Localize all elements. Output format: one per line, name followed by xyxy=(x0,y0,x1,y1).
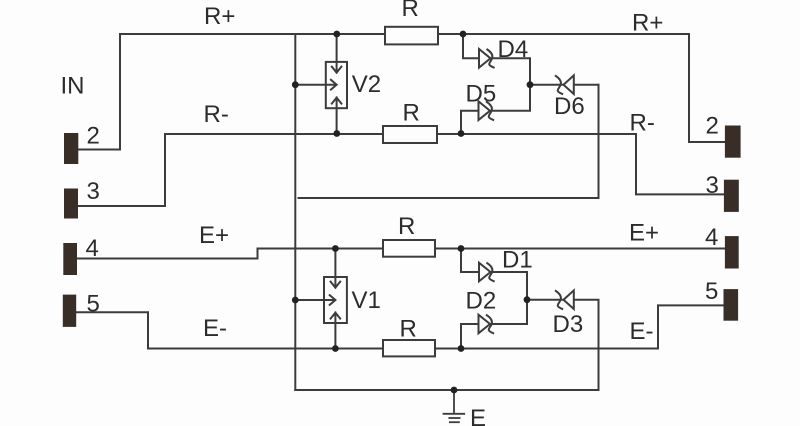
svg-text:D5: D5 xyxy=(466,81,497,108)
ground E symbol xyxy=(444,390,465,422)
terminal pad right 4 xyxy=(725,236,739,268)
wire: left pin3 lead and riser to R- xyxy=(78,134,165,206)
resistor R (E+ line) xyxy=(383,240,435,257)
resistor R (R- line) xyxy=(383,126,437,143)
wire: V1 bottom feed xyxy=(334,323,336,349)
wire: left pin4 lead to E+ xyxy=(77,249,258,259)
svg-text:D1: D1 xyxy=(502,247,533,274)
diode D1 xyxy=(479,263,494,282)
svg-text:E-: E- xyxy=(630,318,654,345)
svg-text:R-: R- xyxy=(204,101,229,128)
wire: R+ drop to right pin2 xyxy=(689,34,725,142)
junction: rail to V2 gate xyxy=(292,81,299,88)
wire: V1 top feed xyxy=(334,249,336,278)
wire: V1 gate feed from rail xyxy=(295,299,324,301)
terminal pad left 2 xyxy=(64,133,78,164)
resistor R (top, R+ line) xyxy=(385,27,438,45)
svg-text:D2: D2 xyxy=(466,288,497,315)
junction: D1/D2/D3 node xyxy=(524,296,531,303)
junction: rail to V1 gate xyxy=(292,297,299,304)
wire: net R+ horizontal xyxy=(120,33,689,35)
junction: V1 bottom on E- xyxy=(332,345,339,352)
svg-text:2: 2 xyxy=(706,113,719,140)
svg-text:R+: R+ xyxy=(204,3,235,30)
wire: D1 branch xyxy=(461,249,527,300)
svg-text:2: 2 xyxy=(87,122,100,149)
junction: V2 top on R+ xyxy=(333,31,340,38)
svg-text:V1: V1 xyxy=(352,287,381,314)
wire: left pin2 lead and riser to R+ xyxy=(79,34,121,150)
svg-text:4: 4 xyxy=(86,235,99,262)
wire: V2 bottom feed xyxy=(336,108,338,134)
diode D3 xyxy=(556,290,574,309)
resistor R (E- line) xyxy=(383,340,435,356)
suppressor V1 body xyxy=(324,277,347,323)
suppressor V2 internal arrows xyxy=(326,62,341,108)
junction: V2 bottom on R- xyxy=(333,130,340,137)
wire: D5 branch xyxy=(461,85,530,134)
wire: net R- horizontal xyxy=(165,133,636,135)
wire: R- drop to right pin3 xyxy=(636,134,724,194)
svg-text:E+: E+ xyxy=(199,222,229,249)
diode D2 xyxy=(479,315,494,334)
wire: D4 branch xyxy=(463,34,530,85)
svg-text:IN: IN xyxy=(61,73,85,100)
terminal pad left 4 xyxy=(63,243,77,275)
svg-text:E: E xyxy=(470,405,486,426)
junction: V1 top on E+ xyxy=(332,245,339,252)
wire: E- rise to right pin5 xyxy=(658,305,724,348)
svg-text:V2: V2 xyxy=(352,71,381,98)
svg-text:R+: R+ xyxy=(632,10,663,37)
suppressor V2 body xyxy=(326,62,347,108)
wire: V2 gate feed from rail xyxy=(295,84,326,86)
wire: D3 branch to ground bus xyxy=(527,300,599,390)
svg-text:D6: D6 xyxy=(554,93,585,120)
svg-text:R: R xyxy=(398,213,415,240)
diode D6 xyxy=(556,75,574,94)
svg-text:R-: R- xyxy=(630,109,655,136)
junction: D4 tap on R+ xyxy=(460,31,467,38)
suppressor V1 internal arrows xyxy=(325,277,341,323)
svg-text:5: 5 xyxy=(87,290,100,317)
svg-text:R: R xyxy=(403,100,420,127)
svg-text:3: 3 xyxy=(87,178,100,205)
terminal pad right 5 xyxy=(724,289,739,321)
wire: D6 cathode return to rail xyxy=(299,85,599,198)
wire: center vertical rail xyxy=(294,34,296,390)
svg-text:E-: E- xyxy=(203,315,227,342)
diode D5 xyxy=(479,101,494,120)
wire: D2 branch xyxy=(461,300,527,349)
svg-text:R: R xyxy=(402,0,419,22)
terminal pad right 3 xyxy=(724,180,739,212)
junction: ground tap on bottom bus xyxy=(451,387,458,394)
svg-text:3: 3 xyxy=(706,172,719,199)
terminal pad left 3 xyxy=(64,189,78,219)
svg-text:4: 4 xyxy=(705,224,718,251)
terminal pad left 5 xyxy=(63,295,76,327)
wire: bottom ground bus xyxy=(295,389,598,391)
terminal pad right 2 xyxy=(725,126,741,158)
wire: net E- horizontal xyxy=(148,348,658,350)
wire: net E+ horizontal xyxy=(258,248,725,250)
wire: D6 branch xyxy=(530,84,599,86)
junction: D5 tap on R- xyxy=(458,130,465,137)
svg-text:R: R xyxy=(400,316,417,343)
junction: D4/D5/D6 node xyxy=(527,81,534,88)
diode D4 xyxy=(479,49,494,68)
svg-text:D3: D3 xyxy=(553,311,584,338)
junction: D2 tap on E- xyxy=(458,345,465,352)
wire: V2 top feed xyxy=(336,34,338,62)
svg-text:D4: D4 xyxy=(498,36,529,63)
wire: left pin5 lead to E- xyxy=(76,312,148,348)
svg-text:E+: E+ xyxy=(629,220,659,247)
svg-text:5: 5 xyxy=(705,278,718,305)
junction: D1 tap on E+ xyxy=(458,245,465,252)
